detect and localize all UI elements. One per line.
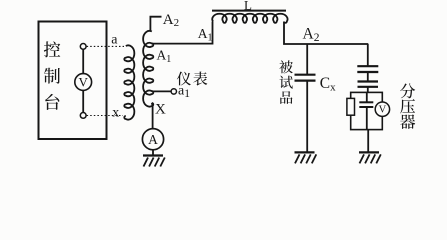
svg-text:x: x bbox=[112, 105, 119, 120]
svg-text:V: V bbox=[379, 105, 387, 116]
svg-text:L: L bbox=[244, 0, 252, 13]
svg-text:X: X bbox=[155, 101, 166, 117]
svg-text:a: a bbox=[111, 32, 118, 47]
svg-text:V: V bbox=[79, 75, 89, 90]
svg-text:A: A bbox=[148, 132, 158, 147]
